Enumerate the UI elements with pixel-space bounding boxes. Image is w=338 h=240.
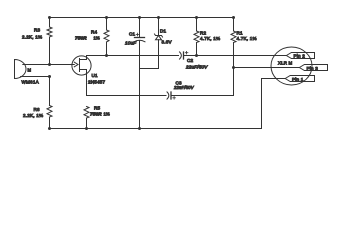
capacitor C1 xyxy=(134,18,145,69)
svg-text:Pin 2: Pin 2 xyxy=(294,53,306,58)
svg-text:4.7K, 1%: 4.7K, 1% xyxy=(237,36,257,41)
svg-text:3.6V: 3.6V xyxy=(162,40,173,45)
capacitor C2 xyxy=(180,51,287,59)
node rail-R4 xyxy=(105,16,108,19)
svg-text:R6: R6 xyxy=(34,107,41,112)
svg-text:750R: 750R xyxy=(90,112,102,117)
node drain-R4 xyxy=(105,54,108,57)
node gnd-R6 xyxy=(48,127,51,130)
svg-text:1%: 1% xyxy=(104,112,111,117)
svg-text:Pin 3: Pin 3 xyxy=(307,66,319,71)
wire top rail xyxy=(50,17,234,19)
wire gate net xyxy=(50,64,75,66)
resistor R5 xyxy=(84,107,89,129)
resistor R4 xyxy=(104,18,109,56)
pin 3 tab xyxy=(299,65,327,71)
svg-text:10uF: 10uF xyxy=(125,40,137,45)
wire mic return to R6 xyxy=(49,77,51,106)
wire XLR pin1 drop xyxy=(262,79,286,129)
resistor R2 xyxy=(194,18,199,56)
zener diode D1 xyxy=(155,18,163,69)
svg-text:2.2K, 1%: 2.2K, 1% xyxy=(23,113,43,118)
wire R1 node to XLR pin3 xyxy=(234,67,300,69)
svg-text:22uF/50V: 22uF/50V xyxy=(185,64,208,69)
pin 1 tab xyxy=(285,76,314,82)
transistor U1 2N5457 xyxy=(72,56,91,96)
node rail-R3 xyxy=(48,16,51,19)
svg-text:U1: U1 xyxy=(92,73,99,78)
wire C1 net to ground rail xyxy=(139,69,141,129)
svg-text:C1: C1 xyxy=(129,32,136,37)
svg-text:2.2K, 1%: 2.2K, 1% xyxy=(22,34,42,39)
node gnd-R5 xyxy=(85,127,88,130)
svg-text:D1: D1 xyxy=(160,28,167,33)
svg-text:R2: R2 xyxy=(200,30,207,35)
svg-text:C2: C2 xyxy=(187,58,194,63)
microphone capsule M WM61A xyxy=(15,60,50,79)
svg-text:R3: R3 xyxy=(34,28,41,33)
svg-text:1%: 1% xyxy=(94,36,101,41)
pin 2 tab xyxy=(286,53,314,59)
node rail-R2 xyxy=(195,16,198,19)
resistor R3 xyxy=(47,18,52,65)
node rail-C1 xyxy=(138,16,141,19)
node rail-D1 xyxy=(157,16,160,19)
wire C1/D1 bottom join xyxy=(140,68,159,70)
resistor R1 xyxy=(231,18,236,96)
node R1-pin3 xyxy=(232,66,235,69)
svg-text:2N5457: 2N5457 xyxy=(88,80,106,85)
svg-text:R1: R1 xyxy=(237,30,244,35)
svg-text:M: M xyxy=(28,68,32,73)
node rail-R1 xyxy=(232,16,235,19)
svg-text:4.7K, 1%: 4.7K, 1% xyxy=(200,36,220,41)
svg-text:R4: R4 xyxy=(91,30,98,35)
node gate-R3 xyxy=(48,63,51,66)
svg-text:R5: R5 xyxy=(94,106,101,111)
svg-text:Pin 1: Pin 1 xyxy=(292,77,304,82)
svg-text:750R: 750R xyxy=(75,36,87,41)
node C2-R2 xyxy=(195,54,198,57)
connector J1 XLR M body xyxy=(271,47,312,85)
node mic-R6 xyxy=(48,75,51,78)
svg-text:22uF/50V: 22uF/50V xyxy=(173,85,195,90)
svg-text:XLR M: XLR M xyxy=(278,61,293,66)
svg-text:WM61A: WM61A xyxy=(22,79,40,84)
capacitor C3 xyxy=(167,92,234,99)
wire drain to C2 xyxy=(87,55,179,57)
resistor R6 xyxy=(47,106,52,129)
wire source net to C3 xyxy=(87,95,167,97)
wire ground rail xyxy=(50,128,262,130)
node gnd-C1 xyxy=(138,127,141,130)
